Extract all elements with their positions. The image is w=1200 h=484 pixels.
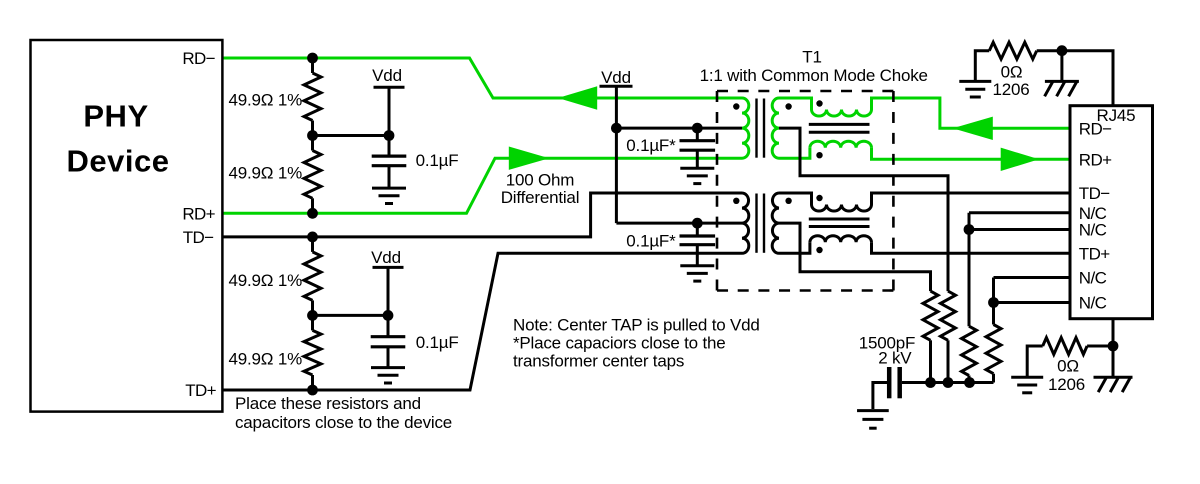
- svg-text:1206: 1206: [1048, 375, 1085, 394]
- svg-text:Vdd: Vdd: [372, 66, 402, 85]
- svg-text:N/C: N/C: [1079, 269, 1107, 288]
- svg-text:1206: 1206: [992, 80, 1029, 99]
- svg-text:N/C: N/C: [1079, 221, 1107, 240]
- svg-text:RD−: RD−: [182, 49, 215, 68]
- svg-text:0Ω: 0Ω: [1001, 63, 1023, 82]
- svg-text:100 Ohm: 100 Ohm: [506, 171, 575, 190]
- svg-text:T1: T1: [802, 48, 821, 67]
- svg-text:TD−: TD−: [183, 228, 214, 247]
- svg-text:Differential: Differential: [501, 188, 580, 207]
- svg-text:0.1µF: 0.1µF: [416, 333, 459, 352]
- svg-text:TD+: TD+: [185, 381, 216, 400]
- svg-text:transformer center taps: transformer center taps: [513, 351, 684, 370]
- svg-text:Vdd: Vdd: [371, 248, 401, 267]
- svg-text:2 kV: 2 kV: [878, 349, 912, 368]
- svg-text:0.1µF*: 0.1µF*: [626, 136, 676, 155]
- svg-text:0.1µF: 0.1µF: [416, 151, 459, 170]
- svg-text:RD+: RD+: [1079, 151, 1112, 170]
- svg-text:capacitors close to the device: capacitors close to the device: [235, 413, 452, 432]
- svg-text:TD−: TD−: [1079, 184, 1110, 203]
- svg-text:TD+: TD+: [1079, 245, 1110, 264]
- svg-text:49.9Ω 1%: 49.9Ω 1%: [229, 164, 303, 183]
- svg-text:RD+: RD+: [182, 205, 215, 224]
- svg-text:49.9Ω 1%: 49.9Ω 1%: [229, 350, 303, 369]
- svg-text:*Place capaciors close to the: *Place capaciors close to the: [513, 333, 726, 352]
- svg-text:Vdd: Vdd: [601, 68, 631, 87]
- svg-text:Device: Device: [67, 144, 170, 179]
- svg-text:N/C: N/C: [1079, 294, 1107, 313]
- svg-text:1:1 with Common Mode Choke: 1:1 with Common Mode Choke: [700, 66, 928, 85]
- svg-text:Place these resistors and: Place these resistors and: [235, 394, 421, 413]
- svg-text:RD−: RD−: [1079, 120, 1112, 139]
- svg-text:49.9Ω 1%: 49.9Ω 1%: [229, 271, 303, 290]
- svg-text:49.9Ω 1%: 49.9Ω 1%: [229, 91, 303, 110]
- svg-text:Note: Center TAP is pulled to: Note: Center TAP is pulled to Vdd: [513, 315, 760, 334]
- svg-text:0Ω: 0Ω: [1057, 357, 1079, 376]
- svg-text:PHY: PHY: [83, 99, 148, 134]
- svg-text:0.1µF*: 0.1µF*: [626, 232, 676, 251]
